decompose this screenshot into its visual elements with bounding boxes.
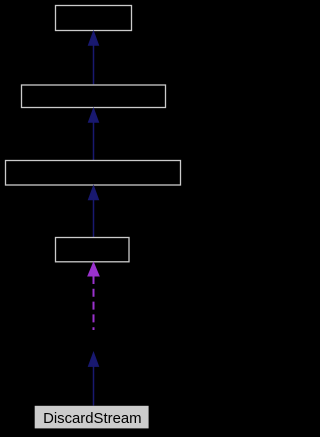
svg-text:DiscardStream: DiscardStream [43,411,141,427]
node box 3 (third ancestor class) [6,161,181,186]
node box 4 (template class) [56,238,130,262]
node box 1 (top ancestor class) [56,6,132,31]
inheritance arrow DiscardStream -> hidden node [88,353,98,406]
node box 2 (second ancestor class) [22,85,166,108]
template relation arrow (dashed) hidden node -> box4 [88,263,99,330]
inheritance arrow box4 -> box3 [88,186,98,237]
inheritance arrow box3 -> box2 [88,108,98,160]
inheritance arrow box2 -> box1 [88,31,98,84]
node DiscardStream (current class, filled) [35,406,149,429]
